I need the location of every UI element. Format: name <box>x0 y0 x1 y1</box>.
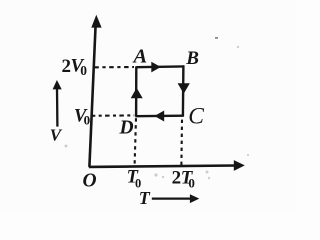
dashed guide 2V0 level <box>94 66 134 68</box>
svg-text:V: V <box>50 126 63 145</box>
label T0 tick <box>127 167 142 190</box>
svg-text:2: 2 <box>172 167 182 188</box>
svg-text:O: O <box>83 170 97 191</box>
dashed guide V0 level <box>91 114 134 117</box>
arrow B to C <box>178 83 190 93</box>
process edge D to A (left) <box>135 66 138 116</box>
svg-text:D: D <box>119 117 134 138</box>
dashed guide 2T0 vertical <box>180 120 183 165</box>
process edge B to C (right) <box>182 65 185 116</box>
svg-text:0: 0 <box>188 175 195 190</box>
scan smudges <box>65 37 250 179</box>
V axis name arrow <box>53 80 62 127</box>
process edge C to D (bottom) <box>135 114 184 117</box>
label 2T0 tick <box>172 167 195 190</box>
dashed guide T0 vertical <box>135 118 136 165</box>
arrow C to D <box>154 111 164 122</box>
process edge A to B (top) <box>136 65 184 68</box>
T axis (horizontal) <box>89 160 245 171</box>
arrow D to A <box>131 88 143 98</box>
svg-text:C: C <box>188 103 204 129</box>
svg-text:B: B <box>185 48 199 69</box>
label V0 <box>74 106 90 127</box>
V axis (vertical) <box>89 15 101 167</box>
svg-text:T: T <box>139 188 151 208</box>
arrow A to B <box>151 62 161 73</box>
label 2V0 <box>62 56 88 78</box>
T axis name arrow <box>152 194 200 203</box>
svg-text:A: A <box>132 46 148 68</box>
svg-text:0: 0 <box>84 113 91 128</box>
svg-text:0: 0 <box>80 63 87 78</box>
